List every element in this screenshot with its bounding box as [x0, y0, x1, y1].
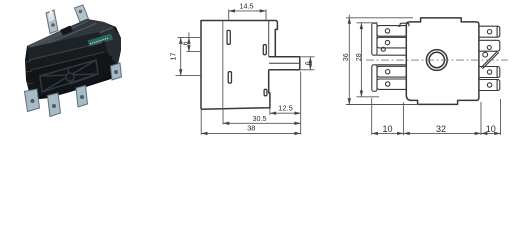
photo top-left mounting tab [46, 10, 58, 34]
svg-text:10: 10 [382, 124, 392, 134]
photo top face left light patch [28, 30, 70, 50]
photo top-right mounting tab [75, 5, 89, 22]
front view shaft circle inner [429, 52, 444, 67]
front view right tab 3 [479, 67, 500, 78]
svg-text:32: 32 [436, 124, 446, 134]
dim 6 shaft extension lines [301, 57, 315, 70]
dim 38 extension lines [200, 110, 202, 135]
photo bottom-left metal tab [25, 89, 40, 112]
svg-text:17: 17 [168, 53, 177, 61]
svg-text:28: 28 [354, 53, 363, 61]
photo X ribs [40, 60, 98, 92]
side view internal vertical line left [222, 21, 224, 109]
dim 10 right line [481, 132, 501, 134]
front view left bracket plate upper [372, 23, 377, 55]
front view left tab 4 [377, 79, 406, 89]
front view left tab 3 [377, 66, 406, 77]
side view dimensions [176, 10, 315, 135]
svg-text:6: 6 [180, 42, 189, 46]
photo mid band [29, 40, 110, 71]
dim 36 extension lines [346, 18, 419, 105]
photo green label [88, 34, 114, 47]
dim 28 extension lines [357, 23, 380, 97]
photo switch body silhouette [25, 19, 121, 100]
side view terminal slot S1 [227, 30, 230, 44]
dim 38 line [201, 132, 301, 134]
front view right tab 1 [479, 26, 500, 37]
front view right tab 4 [479, 80, 500, 91]
dim 6 shaft line [309, 57, 311, 70]
front view top-left boss [398, 23, 409, 26]
dim 14.5 extension lines [229, 10, 266, 20]
photo bottom-right metal tab [76, 86, 88, 108]
dim 6 left extension lines [178, 37, 202, 51]
photo top face streaks [30, 21, 96, 49]
side view terminal slot S3 [263, 45, 266, 55]
svg-text:36: 36 [341, 53, 350, 61]
photo right block face [99, 27, 121, 64]
front view left bracket plate lower [372, 65, 377, 92]
bottom dims extension lines [372, 98, 501, 135]
side view terminal slot S4 [264, 89, 267, 96]
photo lid front band lower highlight [29, 43, 101, 60]
side view internal vertical line right (plate boundary) [268, 21, 270, 57]
dim 17 extension line [176, 75, 203, 77]
photo top clip detail [60, 26, 73, 36]
photo mid band groove [31, 52, 104, 70]
front view dimensions [346, 15, 501, 136]
svg-text:10: 10 [486, 124, 496, 134]
dim 12.5 line [270, 112, 301, 114]
front view right tab 2 with diagonal bracket [479, 40, 500, 69]
dim 28 line [360, 23, 362, 97]
svg-text:6: 6 [303, 61, 312, 65]
side view terminal slot S2 [228, 72, 231, 83]
front view body outline [406, 18, 479, 105]
photo main ribbed slab [31, 53, 115, 97]
svg-text:38: 38 [247, 123, 255, 132]
photo left stacked layers [26, 61, 33, 92]
dim 10 left line [372, 132, 404, 134]
photo base strip [31, 74, 115, 100]
photo right block top highlight [99, 28, 113, 34]
dim 14.5 line [229, 10, 266, 12]
side view shaft mid line [269, 62, 300, 64]
photo lid front band [28, 32, 104, 61]
dim 30.5 line [223, 122, 301, 124]
dim 6 left line [188, 37, 190, 51]
photo body top face [27, 19, 113, 50]
dim 30.5 extension line [222, 110, 224, 125]
front view shaft circle outer [426, 50, 447, 71]
dim 32 line [403, 132, 481, 134]
photo bottom-middle metal tab [48, 93, 61, 117]
dim 12.5 extension lines [270, 72, 301, 135]
svg-text:14.5: 14.5 [240, 2, 254, 11]
front view left tab 1 [377, 26, 406, 37]
photo center boss [66, 73, 74, 81]
svg-text:12.5: 12.5 [278, 104, 293, 113]
dim 36 line [348, 17, 350, 104]
side view shaft [269, 57, 300, 70]
dim 17 line [180, 37, 182, 75]
side view body outline [201, 21, 277, 110]
photo right-side metal tab [111, 63, 122, 80]
front view left tab 2 [377, 37, 406, 48]
front view center line [366, 59, 508, 61]
svg-text:30.5: 30.5 [253, 114, 267, 123]
